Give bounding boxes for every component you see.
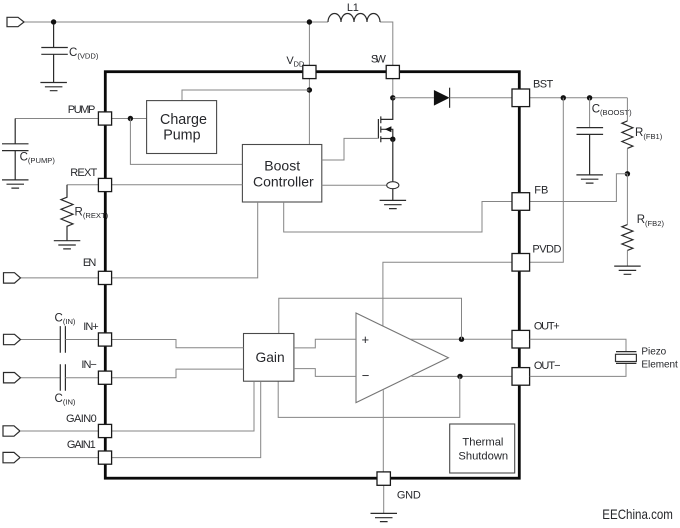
svg-text:EEChina.com: EEChina.com <box>602 506 673 522</box>
diode D1 <box>434 90 450 106</box>
connector GAIN1 input terminal <box>21 457 98 459</box>
transistor Q1 source lead <box>381 138 393 140</box>
wire IN+ pin to gain block <box>112 340 244 348</box>
junction Q1 source node <box>390 137 395 142</box>
wire OUT+ pin to piezo <box>530 339 626 351</box>
gain block U-G <box>244 334 294 382</box>
connector IN+ input terminal <box>21 339 60 341</box>
wire Q1 source to current sense <box>392 139 394 182</box>
thermal shutdown block <box>450 424 515 473</box>
svg-text:REXT: REXT <box>70 167 97 179</box>
wire PUMP pin to C(PUMP) <box>15 118 98 120</box>
ground R(REXT) <box>54 241 81 249</box>
ground C(VDD) <box>40 83 67 91</box>
junction PUMP node <box>128 116 133 121</box>
wire diode D1 to BST pin <box>450 97 512 99</box>
wire OUT- line <box>412 375 513 377</box>
svg-text:Shutdown: Shutdown <box>458 450 508 462</box>
connector IN- input terminal <box>21 377 60 379</box>
wire BST pin to feedback divider <box>530 97 628 99</box>
op-amp A1 <box>356 313 448 403</box>
junction C(BOOST) branch node <box>587 95 592 100</box>
ground R(FB2) <box>614 266 641 274</box>
svg-text:+: + <box>362 332 370 347</box>
wire PVDD pin to amplifier top <box>383 262 512 326</box>
resistor R(REXT) <box>61 185 73 241</box>
wire boost controller to Q1 gate <box>322 138 378 160</box>
wire PUMP pin to charge pump <box>112 118 147 120</box>
wire REXT pin to R(REXT) <box>67 184 98 186</box>
svg-text:GAIN0: GAIN0 <box>66 413 97 425</box>
svg-text:Thermal: Thermal <box>462 436 503 448</box>
wire boost controller to FB pin (internal) <box>284 202 512 233</box>
wire OUT- pin to piezo <box>530 364 626 377</box>
wire R(FB1) to FB node <box>626 148 628 173</box>
svg-text:BST: BST <box>533 79 553 91</box>
wire current sense to ground <box>392 189 394 201</box>
wire boost controller to current sense <box>322 184 387 186</box>
transistor Q1 body lead and arrow <box>381 129 393 139</box>
ground C(BOOST) <box>576 175 603 183</box>
svg-text:Pump: Pump <box>163 127 200 143</box>
pin SW <box>386 65 399 78</box>
transistor Q1 gate bar <box>377 119 379 139</box>
svg-text:IN+: IN+ <box>83 321 98 333</box>
junction switch node <box>390 95 395 100</box>
junction FB divider node <box>625 171 630 176</box>
junction OUT+ feedback tap <box>459 337 464 342</box>
wire REXT pin to boost controller <box>112 184 243 186</box>
piezo element <box>616 352 636 364</box>
resistor R(FB2) <box>622 225 633 251</box>
svg-text:Boost: Boost <box>264 157 300 173</box>
pin BST <box>512 89 530 107</box>
capacitor C(VDD) <box>41 48 68 83</box>
svg-text:EN: EN <box>83 257 96 269</box>
pin OUT+ <box>512 330 530 348</box>
ground GND pin <box>371 513 398 521</box>
wire switch node to diode D1 <box>393 97 434 99</box>
resistor R(FB1) <box>622 121 633 148</box>
wire FB node to FB pin <box>530 174 628 202</box>
wire SW pin to switch node <box>392 79 394 98</box>
pin PVDD <box>512 254 530 272</box>
wire EN pin to boost controller <box>112 202 258 278</box>
current sense element <box>387 182 399 189</box>
pin OUT- <box>512 368 530 386</box>
wire C(BOOST) top lead <box>589 98 591 128</box>
svg-text:OUT+: OUT+ <box>534 321 560 333</box>
pin GAIN1 <box>98 451 111 464</box>
wire IN- pin to gain block <box>112 369 244 378</box>
wire feedback top loop <box>279 298 462 339</box>
svg-text:FB: FB <box>534 184 548 196</box>
wire GAIN0 pin to gain block <box>112 381 254 431</box>
svg-text:Piezo: Piezo <box>641 346 666 357</box>
wire amplifier bottom to GND pin <box>382 390 384 472</box>
wire L1 right to SW pin <box>380 22 393 65</box>
capacitor C(IN) lower <box>60 364 65 391</box>
connector VDD input terminal <box>7 17 24 26</box>
svg-text:IN−: IN− <box>81 359 96 371</box>
wire gain block to amplifier - input <box>294 369 356 377</box>
wire VDD node down to VDD pin <box>308 22 310 65</box>
svg-text:SW: SW <box>371 54 387 66</box>
svg-text:PUMP: PUMP <box>68 104 95 116</box>
svg-text:Charge: Charge <box>160 112 207 128</box>
svg-text:Gain: Gain <box>256 350 285 365</box>
pin PUMP <box>98 112 111 125</box>
junction node L1/VDD tap <box>307 19 312 24</box>
transistor Q1 NMOS drain lead <box>381 98 393 120</box>
connector EN input terminal <box>21 277 98 279</box>
capacitor C(IN) upper <box>60 326 65 353</box>
svg-text:Element: Element <box>641 360 678 371</box>
wire gain block to amplifier + input <box>294 339 356 348</box>
junction PVDD branch node <box>561 95 566 100</box>
pin IN- <box>98 371 111 384</box>
transistor Q1 channel segments <box>380 116 382 142</box>
IC boundary <box>105 72 519 479</box>
wire C(VDD) top lead <box>53 24 55 47</box>
charge pump block U-CP <box>147 101 217 154</box>
pin FB <box>512 193 530 211</box>
wire VDD input rail to L1 <box>24 21 328 23</box>
capacitor C(BOOST) <box>577 128 604 175</box>
wire GND pin to ground <box>383 485 385 513</box>
junction VDD/charge-pump node <box>307 87 312 92</box>
svg-text:OUT−: OUT− <box>534 360 560 372</box>
wire PUMP node to boost controller <box>130 119 242 165</box>
wire GAIN1 pin to gain block <box>112 381 261 457</box>
pin GND <box>377 472 390 485</box>
ground C(PUMP) <box>2 180 29 188</box>
junction node C(VDD) tap <box>51 19 56 24</box>
pin GAIN0 <box>98 424 111 437</box>
svg-text:L1: L1 <box>347 2 359 14</box>
svg-text:−: − <box>362 368 370 383</box>
pin VDD <box>303 65 316 78</box>
pin REXT <box>98 178 111 191</box>
junction OUT- feedback tap <box>457 374 462 379</box>
pin IN+ <box>98 333 111 346</box>
svg-text:PVDD: PVDD <box>532 244 561 256</box>
inductor L1 <box>328 14 380 22</box>
svg-text:GND: GND <box>397 489 421 501</box>
wire BST to R(FB1) <box>626 98 628 121</box>
wire FB node to R(FB2) <box>626 174 628 225</box>
wire feedback bottom loop <box>278 376 460 417</box>
wire OUT+ line <box>410 338 512 340</box>
svg-text:Controller: Controller <box>253 173 314 189</box>
ground boost switch <box>380 200 407 208</box>
wire BST to PVDD pin (external) <box>530 98 563 262</box>
wire charge pump top to VDD node <box>182 90 309 101</box>
connector GAIN0 input terminal <box>21 430 98 432</box>
pin EN <box>98 271 111 284</box>
boost controller block U-BC <box>242 145 321 203</box>
wire VDD pin to boost controller top <box>308 79 310 145</box>
svg-text:GAIN1: GAIN1 <box>67 439 96 451</box>
capacitor C(PUMP) <box>2 119 29 180</box>
wire R(FB2) to ground <box>626 250 628 266</box>
